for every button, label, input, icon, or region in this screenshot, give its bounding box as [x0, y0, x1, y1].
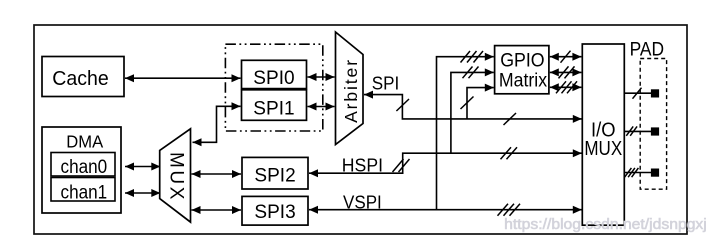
- triple slash on VSPI: [498, 204, 521, 216]
- block SPI2: [242, 157, 308, 189]
- svg-text:Cache: Cache: [52, 68, 108, 90]
- wire HSPI bus riser to GPIO: [451, 72, 494, 153]
- svg-text:SPI: SPI: [372, 74, 400, 94]
- slash on SPI vertical: [396, 99, 409, 111]
- slash pad1: [633, 88, 642, 99]
- wire GPIO-IOMUX row2: [550, 71, 582, 73]
- block DMA: [42, 127, 121, 213]
- block Cache: [42, 57, 124, 97]
- PAD dashed container: [640, 59, 666, 190]
- block SPI3: [242, 196, 308, 225]
- slash on SPI horizontal: [504, 113, 517, 125]
- mux MUX trapezoid: [160, 129, 191, 222]
- wire GPIO-IOMUX row1: [550, 56, 582, 58]
- wire VSPI bus riser to GPIO: [437, 57, 494, 210]
- block SPI1: [242, 90, 307, 121]
- slash row1: [561, 51, 571, 63]
- wire Cache-SPI0: [125, 77, 241, 79]
- wire IOMUX-pad1: [624, 92, 651, 94]
- pad square 3: [651, 169, 659, 177]
- svg-text:DMA: DMA: [66, 131, 103, 151]
- double slash on riser2 horizontal: [463, 67, 479, 79]
- block chan1: [51, 178, 115, 204]
- svg-text:chan0: chan0: [61, 157, 108, 178]
- dash-dot container around SPI0/SPI1: [225, 44, 322, 131]
- double slash on HSPI horizontal: [501, 147, 518, 159]
- wire SPI (Arbiter to I/O MUX): [364, 95, 582, 119]
- block chan0: [51, 153, 115, 179]
- svg-text:GPIO: GPIO: [500, 51, 544, 72]
- wire IOMUX-pad3: [624, 172, 651, 174]
- wire MUX-SPI2: [192, 173, 242, 175]
- slash on GPIO tap vertical: [461, 97, 474, 110]
- wire IOMUX-pad2: [624, 130, 651, 132]
- arbiter trapezoid: [336, 32, 364, 145]
- block I/O MUX: [582, 44, 624, 225]
- outer border frame: [34, 25, 687, 234]
- double slash pad2: [626, 126, 637, 135]
- pad square 1: [651, 89, 659, 97]
- triple slash on riser1 horizontal: [461, 51, 484, 63]
- wire chan0-MUX: [125, 166, 160, 168]
- wire HSPI (SPI2 to I/O MUX, jog): [309, 153, 582, 173]
- svg-text:SPI0: SPI0: [253, 67, 294, 89]
- svg-text:MUX: MUX: [166, 152, 187, 202]
- wire SPI1-Arbiter: [308, 106, 335, 108]
- block SPI0: [242, 60, 307, 89]
- svg-text:SPI1: SPI1: [253, 98, 294, 120]
- svg-text:SPI3: SPI3: [254, 201, 295, 223]
- svg-text:SPI2: SPI2: [254, 164, 295, 186]
- triple slash pad3: [625, 168, 639, 177]
- svg-text:MUX: MUX: [584, 138, 622, 160]
- wire GPIO tap from SPI line: [467, 88, 494, 119]
- svg-text:https://blog.csdn.net/jdsnpgxj: https://blog.csdn.net/jdsnpgxj: [504, 217, 707, 233]
- pad square 2: [651, 127, 659, 135]
- wire SPI0-Arbiter: [308, 76, 335, 78]
- double slash on HSPI jog: [393, 159, 410, 172]
- wire MUX-SPI1 (jog): [193, 106, 241, 142]
- wire GPIO-IOMUX row3: [550, 86, 582, 88]
- wire chan1-MUX: [125, 192, 160, 194]
- triple slash row3: [556, 81, 577, 93]
- block GPIO Matrix: [495, 46, 549, 94]
- svg-text:PAD: PAD: [630, 39, 665, 61]
- wire VSPI (SPI3 to I/O MUX): [309, 209, 582, 211]
- svg-text:chan1: chan1: [61, 182, 108, 203]
- svg-text:Matrix: Matrix: [499, 71, 548, 92]
- double slash row2: [559, 66, 575, 78]
- svg-text:Arbiter: Arbiter: [341, 58, 361, 123]
- wire MUX-SPI3: [192, 209, 242, 211]
